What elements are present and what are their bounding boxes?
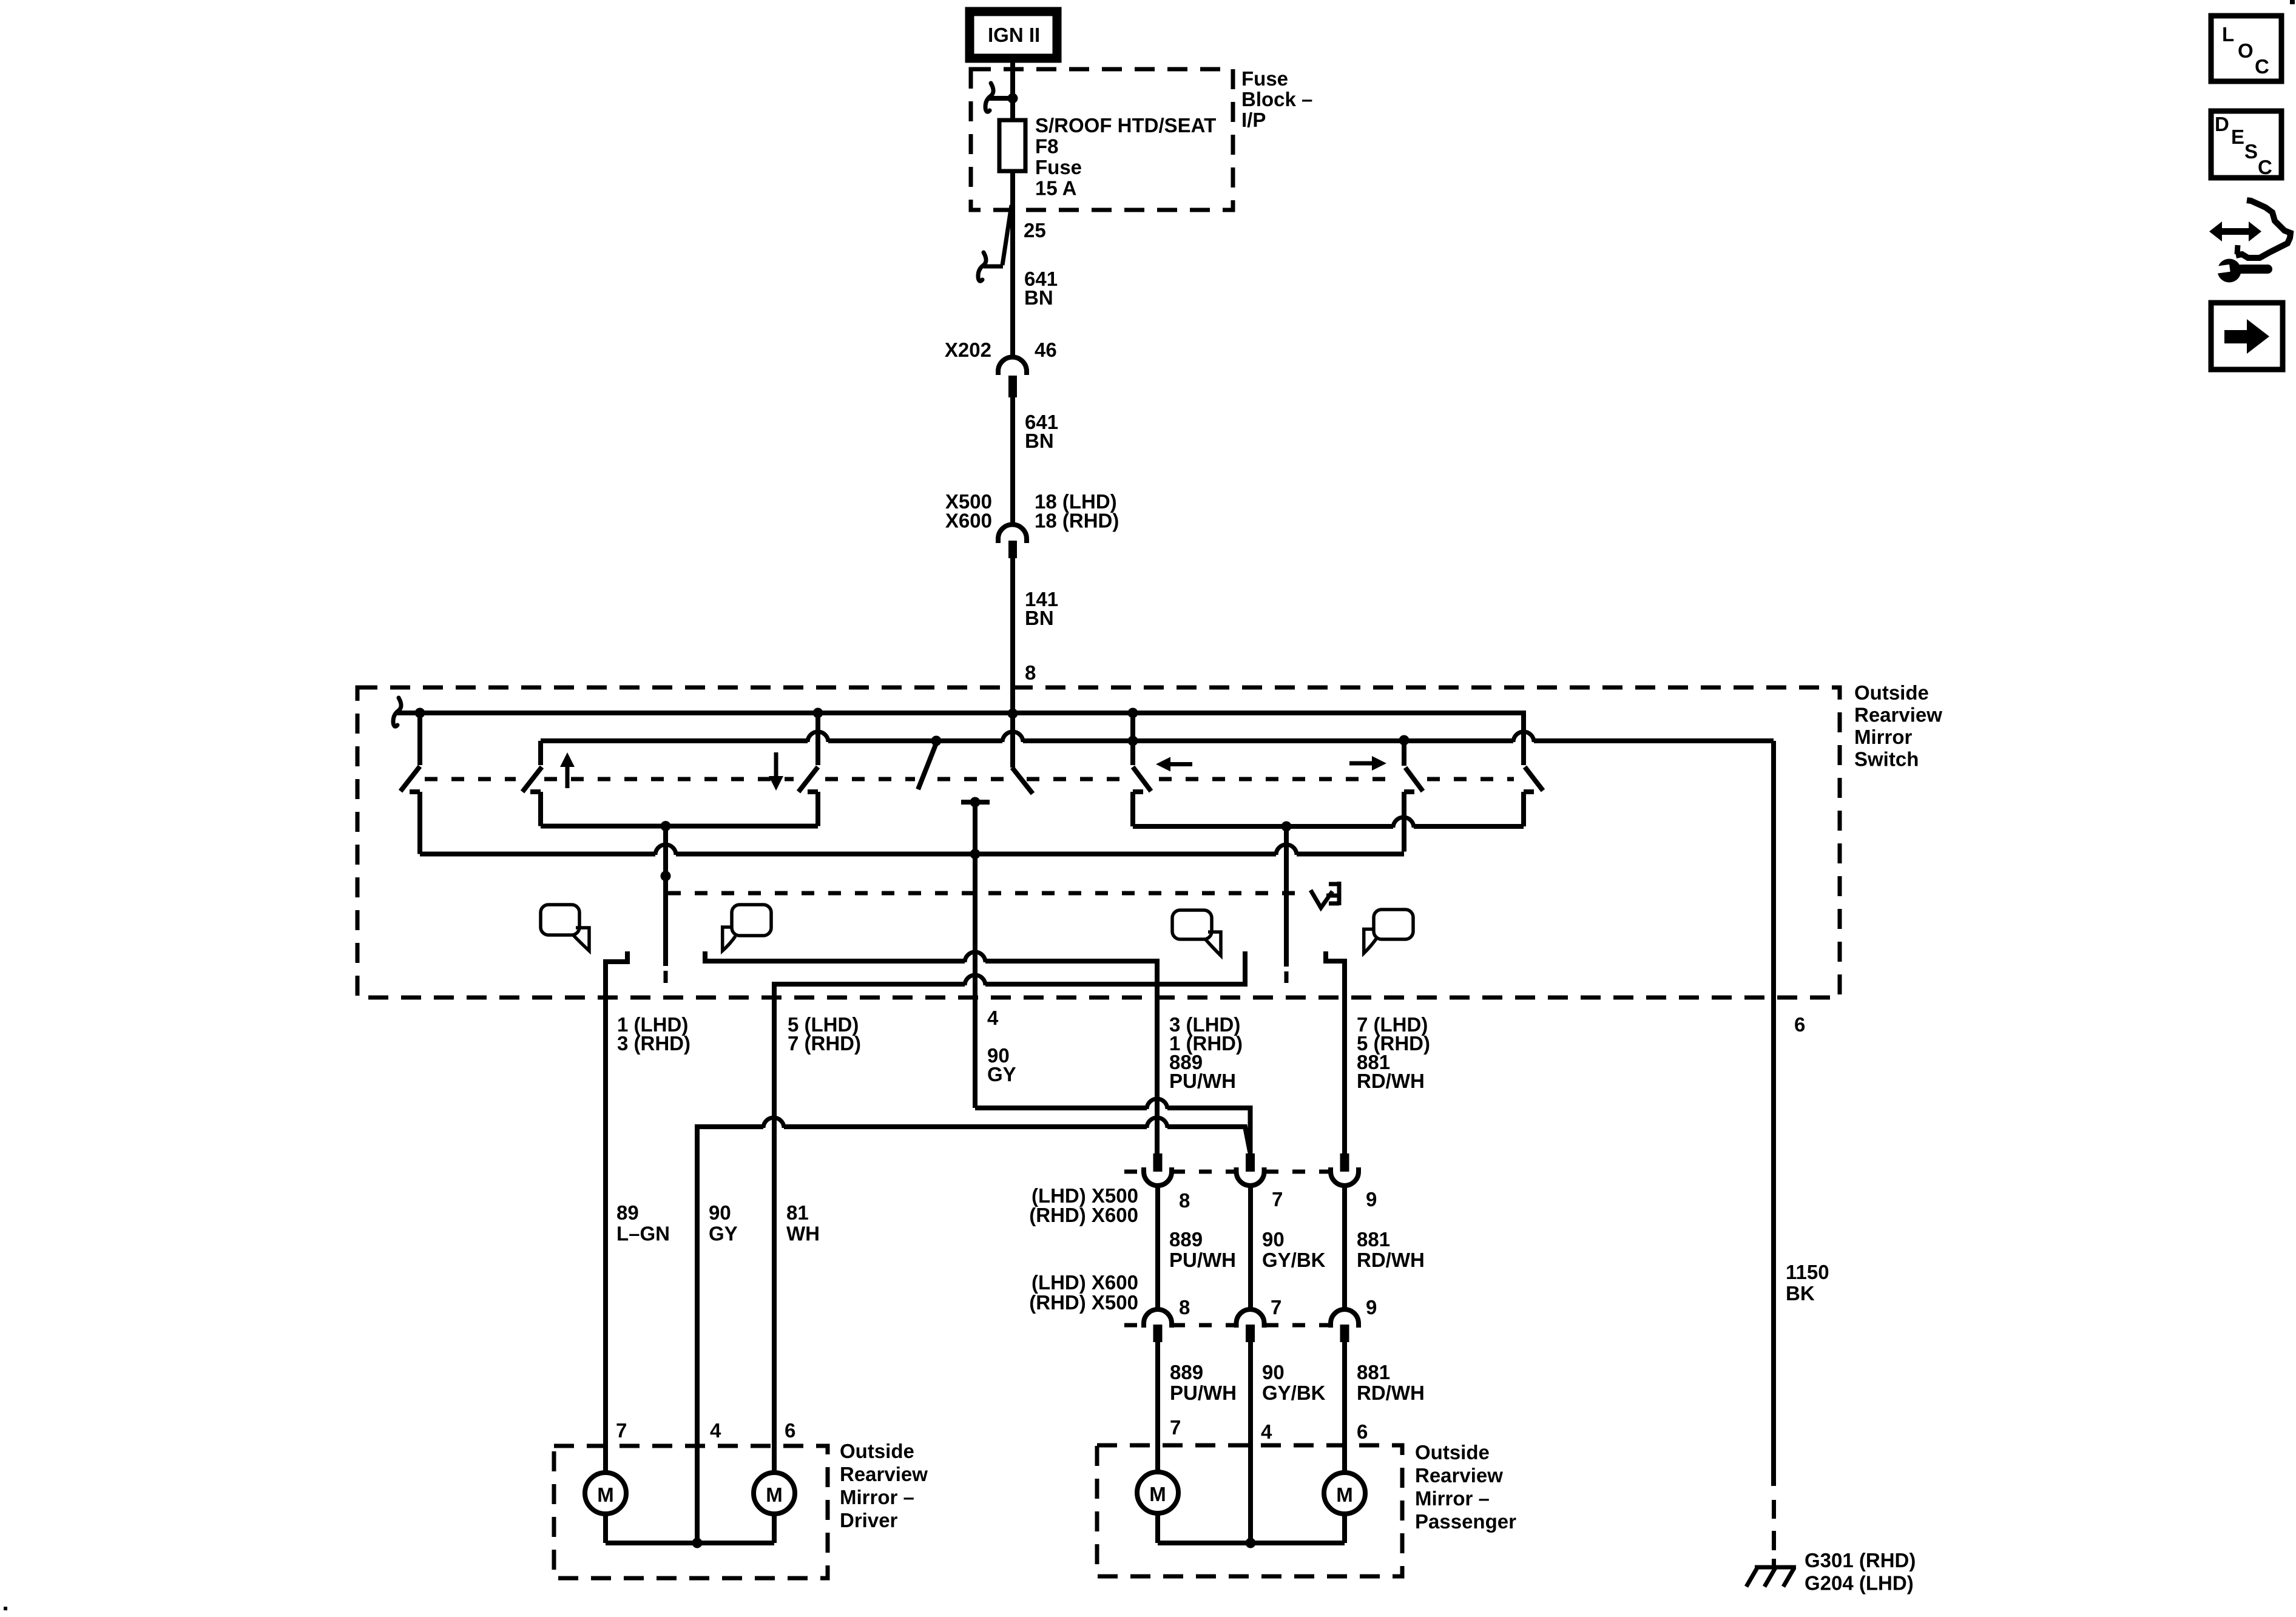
svg-text:6: 6	[785, 1419, 795, 1442]
svg-text:89: 89	[616, 1201, 639, 1224]
switch label text	[1854, 681, 1942, 771]
svg-text:7: 7	[1170, 1416, 1181, 1439]
svg-text:18 (RHD): 18 (RHD)	[1035, 510, 1119, 532]
node center output	[970, 797, 981, 808]
contact 1 lower stub	[417, 792, 422, 854]
contact 5 seat	[1524, 789, 1534, 794]
diagnostic icon (double arrow, pointer outline, wrench)	[2209, 200, 2291, 283]
svg-text:Mirror –: Mirror –	[840, 1486, 914, 1508]
svg-text:Fuse: Fuse	[1241, 67, 1288, 90]
mirror icon 2 (driver horizontal)	[723, 905, 771, 951]
passenger common bus	[1158, 1541, 1345, 1545]
svg-text:F8: F8	[1035, 135, 1059, 158]
svg-text:RD/WH: RD/WH	[1357, 1070, 1425, 1092]
node L2 center	[970, 849, 981, 859]
detent symbol (check+E)	[1311, 882, 1339, 908]
switch pin labels row	[617, 1007, 1805, 1055]
connector X500/X600 female half	[998, 524, 1027, 543]
node LA tap	[1281, 822, 1292, 832]
wire 881 RD/WH to passenger mirror	[1342, 1342, 1347, 1473]
wire 889 PU/WH to passenger mirror	[1155, 1342, 1160, 1471]
svg-text:M: M	[1336, 1484, 1353, 1506]
wire 881 RD/WH between connectors	[1342, 1186, 1347, 1309]
svg-text:G204 (LHD): G204 (LHD)	[1805, 1572, 1914, 1595]
svg-text:RD/WH: RD/WH	[1357, 1382, 1425, 1404]
bus B1 (feed bus)	[420, 711, 1526, 715]
outside rearview mirror passenger dashed box	[1097, 1445, 1402, 1576]
inline connector X500/X600 row 1 dashed body	[1124, 1170, 1330, 1174]
node bus1 center feed	[1008, 709, 1018, 719]
hop arc LA over right contact stub	[1393, 817, 1414, 828]
connector row1 pin 9 male terminal	[1340, 1153, 1349, 1172]
hop arc L2 over phantom tap	[655, 845, 676, 855]
svg-text:X600: X600	[945, 510, 992, 532]
hop arc bus B2 over center feed	[1002, 732, 1023, 742]
link line L1 (up/down common)	[541, 824, 818, 829]
pointer zigzag outline	[2236, 200, 2291, 258]
hop gaps on LD	[763, 1123, 784, 1130]
ground G301/G204 symbol	[1746, 1567, 1796, 1587]
connector row1 pin 8 male terminal	[1153, 1153, 1163, 1172]
svg-text:4: 4	[1261, 1420, 1272, 1443]
svg-text:9: 9	[1366, 1188, 1377, 1210]
connector row2 pin 8 male terminal	[1153, 1325, 1163, 1342]
svg-text:Rearview: Rearview	[840, 1463, 928, 1485]
next-page arrow icon box	[2211, 303, 2283, 370]
wire 1150 BK dashed tail	[1772, 1500, 1776, 1566]
wire colour labels row	[987, 1044, 1425, 1092]
mirror icon 1 (driver vertical)	[541, 905, 589, 951]
wrench	[2209, 259, 2272, 283]
power feed label IGN II	[970, 12, 1057, 58]
driver box label	[840, 1440, 928, 1531]
hop arc LB over wire 4	[965, 975, 985, 985]
hop arc bus B2 over contact5	[1513, 732, 1534, 742]
wire 1150 BK label	[1786, 1261, 1829, 1305]
down contact upper stub	[815, 713, 820, 765]
connector row2 pin 9 male terminal	[1340, 1325, 1349, 1342]
connector X500/X600 male terminal	[1008, 541, 1017, 558]
hop arc bus B2 over contact2	[808, 732, 828, 742]
svg-text:4: 4	[987, 1007, 999, 1029]
svg-text:C: C	[2258, 156, 2272, 178]
svg-text:46: 46	[1035, 339, 1057, 361]
svg-text:S/ROOF HTD/SEAT: S/ROOF HTD/SEAT	[1035, 114, 1216, 137]
wire 89 L-GN origin bracket	[606, 951, 627, 1473]
driver mirror pin labels	[616, 1419, 795, 1442]
node passenger common	[1246, 1538, 1256, 1548]
down contact lower stub	[815, 792, 820, 826]
hop arc LD over 889 wire	[1147, 1118, 1167, 1128]
svg-text:7: 7	[616, 1419, 627, 1442]
node bus2 contact4	[1128, 736, 1138, 746]
node on phantom tap	[661, 871, 671, 881]
fuse block terminal hook	[985, 83, 993, 112]
motor M passenger vertical	[1137, 1472, 1178, 1513]
wire 4 continues: 90 GY common, corner to connector pin 7	[975, 1108, 1251, 1153]
connector row1 pin 9 female half	[1331, 1167, 1359, 1186]
svg-text:8: 8	[1025, 661, 1036, 684]
contact 4 seat	[1133, 789, 1143, 794]
svg-text:Switch: Switch	[1854, 748, 1919, 771]
page artifact mark top right	[2290, 0, 2295, 4]
down arrow	[769, 752, 783, 791]
phantom tap wire down from L1	[663, 826, 668, 967]
motor M driver vertical	[585, 1473, 626, 1514]
svg-text:RD/WH: RD/WH	[1357, 1249, 1425, 1271]
node bus1 contact4	[1128, 708, 1138, 718]
svg-text:Mirror –: Mirror –	[1415, 1487, 1490, 1510]
wire 641 BN below fuse block	[1010, 210, 1015, 357]
svg-text:G301 (RHD): G301 (RHD)	[1805, 1549, 1916, 1571]
svg-text:BK: BK	[1786, 1282, 1815, 1305]
svg-text:889: 889	[1169, 1228, 1203, 1251]
wire fuse to box edge	[1010, 171, 1015, 210]
wire 141 BN to switch	[1010, 558, 1015, 714]
hop arc LA2 over wire 4	[965, 952, 985, 962]
wire from IGN II into fuse block	[1010, 58, 1015, 120]
svg-text:IGN II: IGN II	[988, 24, 1040, 46]
connector row2 labels	[1029, 1271, 1377, 1318]
phantom tap wire down from LA	[1284, 826, 1289, 967]
wire 641 BN to X500/X600	[1010, 397, 1015, 525]
phantom tap dashed end	[1285, 971, 1289, 983]
svg-text:GY/BK: GY/BK	[1262, 1382, 1326, 1404]
down contact blade	[799, 767, 818, 792]
svg-text:881: 881	[1357, 1361, 1390, 1383]
contact 4 upper stub	[1130, 713, 1135, 765]
svg-text:M: M	[766, 1484, 783, 1506]
svg-text:90: 90	[1262, 1228, 1285, 1251]
svg-text:L: L	[2222, 23, 2234, 46]
hop gap on LB over wire 4	[965, 981, 985, 988]
svg-text:O: O	[2238, 39, 2254, 62]
svg-text:C: C	[2255, 55, 2269, 78]
svg-text:Mirror: Mirror	[1854, 726, 1913, 748]
phantom tap dashed end	[664, 971, 668, 983]
svg-text:GY: GY	[987, 1063, 1016, 1085]
mirror icon 3 (passenger vertical)	[1172, 910, 1221, 956]
svg-text:9: 9	[1366, 1296, 1377, 1318]
right contact lower stub	[1402, 792, 1406, 852]
terminal lead	[984, 265, 1003, 269]
wire label 641 BN	[1024, 268, 1058, 309]
node bus2 contact3	[931, 736, 942, 746]
link line L2 (lateral common)	[420, 852, 1404, 857]
driver common bus	[606, 1541, 774, 1545]
hop gap on LA2 over wire 4	[965, 957, 985, 965]
contact 4 blade	[1133, 767, 1151, 791]
center feed stub	[1010, 714, 1015, 768]
fuse label text	[1035, 114, 1216, 200]
svg-text:6: 6	[1357, 1420, 1368, 1443]
svg-text:15 A: 15 A	[1035, 177, 1076, 200]
svg-text:Block –: Block –	[1241, 88, 1312, 110]
hop gaps on bus B2	[808, 737, 828, 744]
left arrow	[1156, 757, 1192, 772]
fuse F8 S/ROOF HTD/SEAT 15 A	[999, 120, 1025, 171]
bus B1 right corner down to contact 5	[1521, 711, 1526, 765]
node bus1 contact1	[415, 708, 425, 718]
node driver common	[692, 1538, 703, 1548]
up contact lower stub	[538, 792, 543, 826]
pointer thumb stub	[2237, 245, 2238, 254]
wire repaint at hop crossings	[666, 711, 1524, 1473]
wire 90 GY/BK to passenger mirror	[1248, 1342, 1253, 1543]
svg-text:889: 889	[1170, 1361, 1203, 1383]
wire label 641 BN	[1025, 411, 1058, 452]
terminal hook	[978, 252, 986, 281]
connector row2 pin 7 male terminal	[1246, 1325, 1255, 1342]
svg-text:D: D	[2215, 113, 2229, 135]
passenger mirror pin labels	[1170, 1416, 1368, 1443]
svg-text:90: 90	[1262, 1361, 1285, 1383]
terminal lead	[396, 711, 420, 715]
wire labels between connectors	[1169, 1228, 1425, 1271]
connector X202 female half	[998, 357, 1027, 376]
svg-text:E: E	[2231, 126, 2244, 148]
svg-text:BN: BN	[1024, 286, 1053, 309]
svg-text:Outside: Outside	[1415, 1441, 1490, 1463]
up contact blade	[522, 767, 542, 792]
contact 1 blade	[400, 766, 420, 791]
pin 18 labels	[1035, 490, 1119, 532]
center blade	[1012, 768, 1033, 794]
svg-text:8: 8	[1179, 1296, 1190, 1318]
svg-text:3 (RHD): 3 (RHD)	[617, 1032, 690, 1055]
svg-text:(RHD) X500: (RHD) X500	[1029, 1291, 1138, 1314]
bus B2 (secondary bus)	[541, 738, 1774, 743]
up contact seat	[530, 789, 541, 794]
svg-text:WH: WH	[786, 1223, 820, 1245]
outside rearview mirror driver dashed box	[554, 1446, 828, 1578]
DESC icon box	[2211, 111, 2281, 178]
svg-text:7 (RHD): 7 (RHD)	[788, 1032, 861, 1055]
svg-text:GY: GY	[709, 1223, 738, 1245]
motor M driver horizontal	[754, 1473, 795, 1514]
right arrow	[1349, 756, 1386, 771]
svg-text:Rearview: Rearview	[1415, 1464, 1503, 1487]
svg-text:4: 4	[710, 1419, 721, 1442]
wire 90 GY/BK between connectors	[1248, 1186, 1253, 1309]
svg-text:Passenger: Passenger	[1415, 1510, 1516, 1533]
up arrow	[560, 752, 575, 788]
hop arc wire4 over 889 wire	[1147, 1099, 1167, 1109]
svg-text:7: 7	[1271, 1296, 1281, 1318]
svg-text:S: S	[2244, 140, 2258, 163]
line LD: driver 90 GY branch	[697, 1127, 1250, 1543]
connector row2 pin 8 female half	[1144, 1309, 1172, 1328]
svg-text:BN: BN	[1025, 430, 1054, 452]
passenger motor stubs to common	[1155, 1513, 1160, 1543]
driver wire labels	[616, 1201, 820, 1245]
svg-text:PU/WH: PU/WH	[1169, 1070, 1236, 1092]
node bus2 right contact	[1399, 735, 1410, 746]
svg-text:M: M	[1149, 1483, 1166, 1505]
svg-text:GY/BK: GY/BK	[1262, 1249, 1326, 1271]
wire label 141 BN	[1025, 588, 1058, 629]
fuse block label text	[1241, 67, 1312, 131]
node L1 tap	[661, 821, 671, 831]
svg-text:Rearview: Rearview	[1854, 704, 1942, 726]
passenger box label	[1415, 1441, 1516, 1533]
wire 81 WH origin bracket + line LB	[774, 951, 1245, 1473]
down contact seat	[808, 789, 818, 794]
wire 889 PU/WH origin bracket + line LA2	[705, 951, 1157, 1153]
LOC icon box	[2211, 16, 2281, 81]
svg-text:1150: 1150	[1786, 1261, 1829, 1283]
connector row1 pin 8 female half	[1144, 1167, 1172, 1186]
double-headed arrow	[2209, 221, 2261, 241]
mechanical link dashed segments	[425, 777, 1514, 781]
svg-text:90: 90	[709, 1201, 731, 1224]
svg-text:Driver: Driver	[840, 1509, 898, 1531]
contact 5 blade	[1525, 767, 1543, 791]
switch feed terminal hook	[393, 698, 401, 726]
hop arc LD over 81 WH	[763, 1118, 784, 1128]
svg-text:25: 25	[1024, 219, 1046, 241]
hop gaps on L2	[655, 850, 676, 857]
terminal lead	[988, 96, 1013, 101]
right contact seat	[1404, 789, 1414, 794]
svg-text:Outside: Outside	[840, 1440, 914, 1462]
wire labels below row2	[1170, 1361, 1425, 1404]
up contact upper stub	[538, 741, 543, 765]
svg-text:BN: BN	[1025, 607, 1054, 629]
svg-text:X202: X202	[945, 339, 991, 361]
mirror icon 4 (passenger horizontal)	[1364, 910, 1413, 953]
contact 1 seat	[410, 789, 420, 794]
svg-text:I/P: I/P	[1241, 109, 1266, 131]
wire 881 RD/WH origin bracket	[1326, 951, 1345, 1153]
mechanical link 2 dashed	[668, 891, 1306, 896]
contact 4 lower stub	[1130, 792, 1135, 826]
svg-text:Fuse: Fuse	[1035, 156, 1082, 178]
right contact upper stub	[1402, 740, 1406, 766]
ground labels	[1805, 1549, 1916, 1595]
fuse block output terminal slash	[1002, 205, 1011, 265]
contact 5 lower stub	[1521, 792, 1526, 826]
center output T-bar	[961, 800, 990, 805]
contact 3 blade	[918, 743, 936, 789]
inline connector X600/X500 row 2 dashed body	[1124, 1323, 1330, 1328]
outside rearview mirror switch dashed box	[357, 687, 1840, 998]
svg-text:6: 6	[1794, 1013, 1805, 1036]
link line LA (contact4-contact5 common)	[1133, 824, 1524, 829]
hop gap on LA	[1393, 823, 1414, 830]
connector X202 male terminal	[1008, 376, 1017, 397]
svg-text:8: 8	[1179, 1189, 1190, 1212]
motor M passenger horizontal	[1324, 1473, 1365, 1514]
right contact blade	[1405, 768, 1423, 791]
wire 4 (common) vertical	[973, 802, 977, 1108]
hop gap on wire4 horizontal over 889 wire	[1147, 1104, 1167, 1112]
svg-text:M: M	[597, 1484, 614, 1506]
svg-text:PU/WH: PU/WH	[1169, 1249, 1236, 1271]
contact 1 upper stub	[417, 713, 422, 765]
page artifact dot	[4, 1607, 7, 1610]
svg-text:Outside: Outside	[1854, 681, 1929, 704]
fuse block - I/P dashed box	[971, 69, 1233, 210]
connector row1 pin 7 female half	[1237, 1167, 1264, 1186]
svg-text:881: 881	[1357, 1228, 1390, 1251]
connector row1 labels	[1029, 1184, 1377, 1226]
svg-text:L–GN: L–GN	[616, 1223, 670, 1245]
connector row1 pin 7 male terminal	[1246, 1153, 1255, 1172]
connector row2 pin 9 female half	[1331, 1309, 1359, 1328]
svg-text:81: 81	[786, 1201, 809, 1224]
wire 889 PU/WH between connectors	[1155, 1186, 1160, 1309]
node bus1 contact2	[813, 708, 823, 718]
bus B2 right corner: wire to pin 6	[1771, 741, 1776, 1486]
driver motor stubs to common	[603, 1514, 608, 1543]
svg-text:PU/WH: PU/WH	[1170, 1382, 1237, 1404]
svg-text:(RHD) X600: (RHD) X600	[1029, 1204, 1138, 1226]
svg-text:(LHD) X600: (LHD) X600	[1032, 1271, 1138, 1294]
connector X500/X600 label	[945, 490, 992, 532]
svg-text:7: 7	[1272, 1188, 1283, 1210]
hop arc L2 over LA phantom tap	[1276, 845, 1297, 855]
connector row2 pin 7 female half	[1237, 1309, 1264, 1328]
node: fuse input junction	[1008, 93, 1018, 104]
